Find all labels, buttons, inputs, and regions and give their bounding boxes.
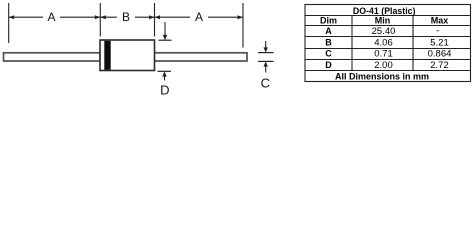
svg-text:Min: Min <box>375 15 391 25</box>
D arrowhead pointing down <box>163 35 167 40</box>
svg-text:25.40: 25.40 <box>372 26 396 37</box>
svg-text:A: A <box>325 26 332 36</box>
arrowhead A left pointing left <box>9 15 15 19</box>
table outer border <box>305 5 471 82</box>
D arrowhead pointing up <box>162 71 166 76</box>
C arrow bottom stem <box>265 66 267 72</box>
svg-text:D: D <box>160 82 169 97</box>
svg-text:D: D <box>325 60 332 70</box>
diode body DO-41 <box>100 40 155 71</box>
D extension bar bottom (body bottom projected) <box>158 70 172 72</box>
svg-text:All Dimensions in mm: All Dimensions in mm <box>335 71 429 81</box>
extension line body right edge <box>154 3 156 37</box>
svg-text:2.00: 2.00 <box>374 60 393 71</box>
arrowhead A right pointing left <box>155 15 161 19</box>
left lead of diode <box>4 53 101 61</box>
svg-text:C: C <box>261 75 270 90</box>
svg-text:2.72: 2.72 <box>430 60 449 71</box>
table row divider under row D <box>305 70 471 72</box>
table column divider 2 <box>412 16 414 71</box>
arrowhead B pointing right <box>149 15 155 19</box>
C arrowhead pointing down <box>264 47 268 52</box>
table row divider under row B <box>305 48 471 50</box>
dimension line A right segment 2 <box>208 16 243 18</box>
D extension bar top (body top projected) <box>159 39 172 41</box>
svg-text:Max: Max <box>431 15 449 25</box>
svg-text:Dim: Dim <box>320 15 337 25</box>
dimension line B segment 1 <box>100 16 117 18</box>
C extension bar top (lead top projected) <box>258 52 274 54</box>
arrowhead A right pointing right <box>238 15 244 19</box>
cathode band <box>104 41 110 70</box>
svg-text:5.21: 5.21 <box>430 38 449 49</box>
svg-text:B: B <box>122 10 130 24</box>
svg-text:4.06: 4.06 <box>374 38 393 49</box>
dimension line A right segment 1 <box>155 16 191 18</box>
C arrow top stem <box>265 41 267 48</box>
extension line right lead end <box>242 3 244 48</box>
D arrow bottom stem <box>164 76 166 80</box>
arrowhead A left pointing right <box>95 15 101 19</box>
dimension line A left segment 1 <box>9 16 43 18</box>
table row divider under column headers <box>305 25 471 27</box>
arrowhead B pointing left <box>100 15 106 19</box>
svg-text:0.71: 0.71 <box>374 49 393 60</box>
dimension line B segment 2 <box>135 16 155 18</box>
svg-text:-: - <box>436 26 439 37</box>
right lead of diode <box>154 53 247 61</box>
C extension bar bottom (lead bottom projected) <box>258 60 274 62</box>
svg-text:A: A <box>47 10 55 24</box>
table row divider under title <box>305 15 471 17</box>
table column divider 1 <box>351 16 353 71</box>
svg-text:C: C <box>325 49 332 59</box>
extension line body left edge <box>99 3 101 37</box>
extension line left lead end <box>8 3 10 43</box>
table row divider under row C <box>305 59 471 61</box>
D arrow top stem <box>164 22 166 36</box>
C arrowhead pointing up <box>264 61 268 66</box>
svg-text:0.864: 0.864 <box>428 49 452 60</box>
svg-text:A: A <box>195 10 203 24</box>
dimension line A left segment 2 <box>60 16 100 18</box>
svg-text:B: B <box>325 38 332 48</box>
table row divider under row A <box>305 36 471 38</box>
